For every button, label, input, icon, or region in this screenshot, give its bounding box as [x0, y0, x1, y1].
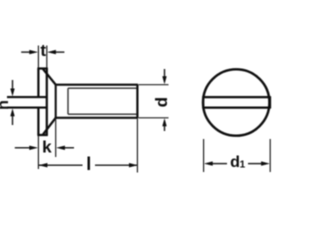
slot band bottom line [203, 106, 270, 108]
dimension t [21, 50, 64, 54]
k left arrow tail [15, 147, 31, 149]
head top edge [37, 67, 47, 69]
n lower arrow tail [12, 116, 14, 125]
d1 left extension line [203, 139, 205, 172]
d lower arrowhead [162, 118, 166, 126]
svg-text:d: d [230, 154, 240, 171]
thread runout line [67, 88, 69, 114]
slot band right cap [269, 96, 271, 108]
slot band top line [203, 96, 270, 98]
svg-text:d: d [152, 97, 171, 107]
junction extension to k dim [55, 118, 57, 157]
t left arrow tail [21, 51, 30, 53]
cone bottom [43, 118, 56, 135]
dimension l [39, 163, 138, 167]
slot bottom extension line (to t dim) [46, 46, 48, 69]
l dimension line left part [39, 164, 83, 166]
k right arrow tail [65, 147, 75, 149]
slot side lower line [7, 107, 47, 109]
t left arrowhead [29, 50, 38, 54]
l dimension line right part [95, 164, 137, 166]
shaft end [136, 85, 138, 118]
head face outline [37, 69, 39, 136]
n lower arrowhead [10, 109, 14, 117]
k left arrowhead [29, 146, 38, 150]
d upper extension line [139, 84, 169, 86]
slot band left cap [202, 96, 204, 108]
slot side upper line [7, 96, 47, 98]
dimension k [15, 146, 74, 150]
n upper arrow tail [12, 80, 14, 89]
shaft end extension to l dim [136, 118, 138, 173]
d1 right arrowhead [261, 161, 270, 165]
cone top [43, 69, 56, 85]
thread root bottom [68, 113, 137, 115]
svg-text:t: t [40, 41, 46, 60]
thread root top [68, 87, 137, 89]
l left arrowhead [39, 163, 48, 167]
head top view: outer circle [203, 69, 269, 135]
screw side view [7, 46, 138, 173]
svg-text:l: l [86, 154, 91, 174]
shaft top [56, 84, 138, 86]
d1 left arrowhead [204, 161, 213, 165]
n upper arrowhead [10, 89, 14, 97]
d upper arrowhead [162, 76, 166, 84]
d lower arrow tail [164, 126, 166, 131]
t right arrowhead [47, 50, 56, 54]
k right arrowhead [56, 146, 65, 150]
cone-shaft junction [55, 85, 57, 118]
d1 dimension line left part [212, 163, 227, 165]
t right arrow tail [56, 51, 65, 53]
l right arrowhead [129, 163, 138, 167]
dimension d1 [204, 139, 271, 172]
d1 right extension line [269, 139, 271, 172]
dimension d (shaft) [139, 69, 169, 131]
svg-text:k: k [42, 138, 52, 157]
slot bottom line [46, 69, 48, 136]
shaft bottom [56, 117, 138, 119]
head face extension line (to t dim) [37, 46, 39, 69]
d1 dimension line right part [248, 163, 262, 165]
d lower extension line [139, 117, 169, 119]
d upper arrow tail [164, 69, 166, 77]
svg-text:1: 1 [240, 160, 246, 171]
head bottom edge [37, 134, 47, 136]
dimension n [10, 80, 14, 125]
head face extension line (to l dim) [37, 135, 39, 169]
svg-text:n: n [0, 100, 12, 110]
